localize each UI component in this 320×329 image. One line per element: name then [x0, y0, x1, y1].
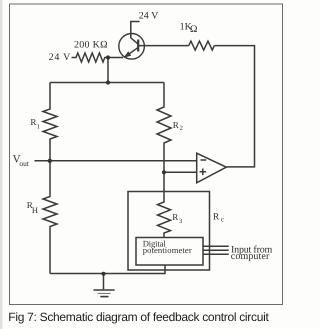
svg-text:1KΩ: 1KΩ — [180, 22, 198, 36]
svg-text:Vout: Vout — [13, 153, 30, 168]
svg-text:Fig 7: Schematic diagram of fe: Fig 7: Schematic diagram of feedback con… — [8, 310, 269, 324]
svg-text:24 V: 24 V — [49, 52, 72, 63]
svg-text:potentiometer: potentiometer — [143, 245, 192, 255]
svg-text:R1: R1 — [30, 117, 40, 131]
svg-text:R3: R3 — [172, 212, 182, 225]
svg-text:R2: R2 — [173, 120, 183, 132]
svg-text:24 V: 24 V — [139, 10, 159, 21]
svg-text:computer: computer — [231, 251, 270, 262]
svg-text:RH: RH — [27, 200, 38, 215]
svg-text:200 KΩ: 200 KΩ — [74, 39, 108, 50]
svg-text:Rc: Rc — [213, 212, 224, 223]
